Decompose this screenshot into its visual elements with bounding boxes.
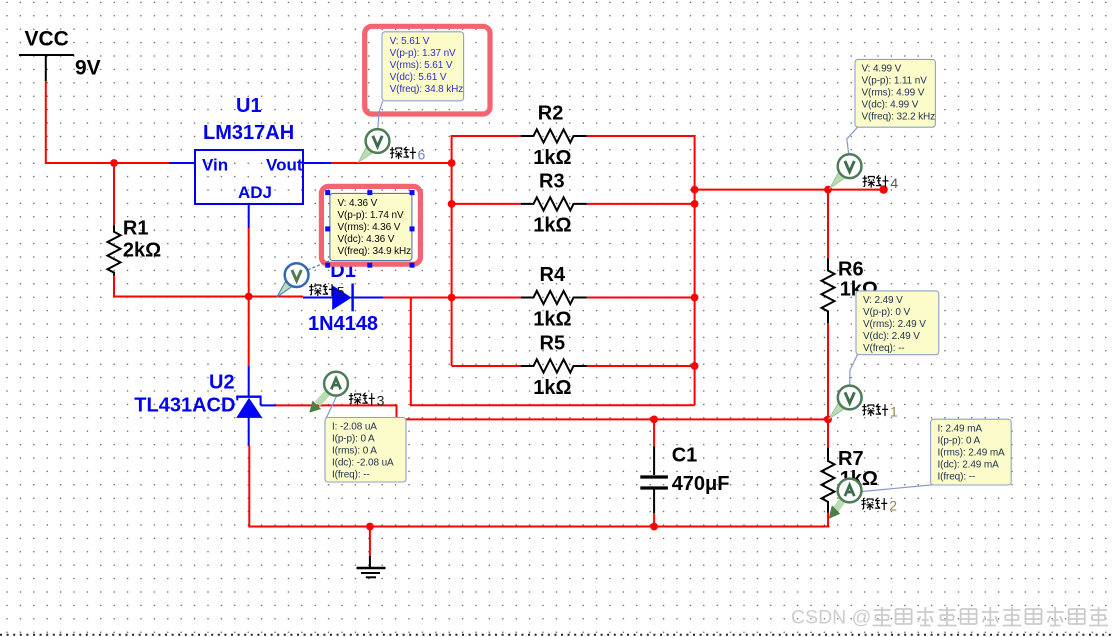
svg-text:I: -2.08 uA: I: -2.08 uA xyxy=(332,422,377,433)
svg-text:V: 4.36 V: V: 4.36 V xyxy=(338,198,378,209)
svg-text:R5: R5 xyxy=(540,333,566,355)
svg-text:V(p-p): 1.11 nV: V(p-p): 1.11 nV xyxy=(862,76,928,87)
svg-text:5: 5 xyxy=(337,283,345,299)
svg-text:R6: R6 xyxy=(838,259,864,281)
svg-text:1N4148: 1N4148 xyxy=(308,313,378,335)
svg-text:V(freq): 34.9 kHz: V(freq): 34.9 kHz xyxy=(338,246,412,257)
svg-text:I(dc): -2.08 uA: I(dc): -2.08 uA xyxy=(332,458,394,469)
svg-text:V: 4.99 V: V: 4.99 V xyxy=(862,64,902,75)
svg-text:R3: R3 xyxy=(539,170,565,192)
svg-text:V(rms): 2.49 V: V(rms): 2.49 V xyxy=(863,319,926,330)
svg-text:C1: C1 xyxy=(672,445,698,467)
svg-text:V(dc): 5.61 V: V(dc): 5.61 V xyxy=(390,72,447,83)
svg-text:LM317AH: LM317AH xyxy=(203,122,294,144)
svg-text:TL431ACD: TL431ACD xyxy=(134,395,235,417)
svg-text:V(p-p): 1.37 nV: V(p-p): 1.37 nV xyxy=(390,48,456,59)
svg-text:1kΩ: 1kΩ xyxy=(533,215,571,237)
svg-text:1kΩ: 1kΩ xyxy=(533,377,571,399)
svg-text:V(rms): 4.99 V: V(rms): 4.99 V xyxy=(862,88,925,99)
svg-text:I(p-p): 0 A: I(p-p): 0 A xyxy=(938,435,981,446)
svg-text:V(rms): 4.36 V: V(rms): 4.36 V xyxy=(338,222,401,233)
svg-text:V(p-p): 1.74 nV: V(p-p): 1.74 nV xyxy=(338,210,404,221)
svg-text:R4: R4 xyxy=(540,264,566,286)
svg-text:2kΩ: 2kΩ xyxy=(123,240,161,262)
svg-text:9V: 9V xyxy=(75,57,101,80)
svg-text:VCC: VCC xyxy=(25,28,69,51)
svg-text:ADJ: ADJ xyxy=(238,183,272,202)
svg-text:V(dc): 4.99 V: V(dc): 4.99 V xyxy=(862,100,919,111)
svg-text:U2: U2 xyxy=(209,372,235,394)
svg-text:R2: R2 xyxy=(538,103,564,125)
svg-text:R1: R1 xyxy=(123,218,149,240)
svg-text:1kΩ: 1kΩ xyxy=(533,147,571,169)
svg-text:V(freq): 34.8 kHz: V(freq): 34.8 kHz xyxy=(390,84,464,95)
svg-text:2: 2 xyxy=(889,497,897,513)
svg-text:4: 4 xyxy=(890,175,898,191)
svg-text:V: 2.49 V: V: 2.49 V xyxy=(863,295,903,306)
svg-text:Vout: Vout xyxy=(266,156,303,175)
svg-text:3: 3 xyxy=(377,392,385,408)
svg-text:I: 2.49 mA: I: 2.49 mA xyxy=(938,423,983,434)
svg-text:V(dc): 2.49 V: V(dc): 2.49 V xyxy=(863,331,920,342)
svg-text:Vin: Vin xyxy=(202,156,228,175)
svg-text:1kΩ: 1kΩ xyxy=(533,309,571,331)
svg-text:V(freq): 32.2 kHz: V(freq): 32.2 kHz xyxy=(862,112,936,123)
svg-text:I(rms): 2.49 mA: I(rms): 2.49 mA xyxy=(938,447,1006,458)
svg-text:V: 5.61 V: V: 5.61 V xyxy=(390,36,430,47)
svg-text:V(freq): --: V(freq): -- xyxy=(863,343,904,354)
svg-text:I(dc): 2.49 mA: I(dc): 2.49 mA xyxy=(938,459,1000,470)
svg-text:V(rms): 5.61 V: V(rms): 5.61 V xyxy=(390,60,453,71)
svg-text:I(rms): 0 A: I(rms): 0 A xyxy=(332,446,377,457)
svg-text:1: 1 xyxy=(890,403,898,419)
svg-text:I(freq): --: I(freq): -- xyxy=(938,471,976,482)
svg-text:I(p-p): 0 A: I(p-p): 0 A xyxy=(332,434,375,445)
svg-text:CSDN @: CSDN @ xyxy=(791,607,871,629)
svg-text:V(dc): 4.36 V: V(dc): 4.36 V xyxy=(338,234,395,245)
svg-text:R7: R7 xyxy=(838,448,864,470)
svg-text:U1: U1 xyxy=(236,95,262,117)
svg-text:470μF: 470μF xyxy=(672,473,730,495)
svg-text:I(freq): --: I(freq): -- xyxy=(332,470,370,481)
svg-text:V(p-p): 0 V: V(p-p): 0 V xyxy=(863,307,910,318)
svg-text:6: 6 xyxy=(418,146,426,162)
